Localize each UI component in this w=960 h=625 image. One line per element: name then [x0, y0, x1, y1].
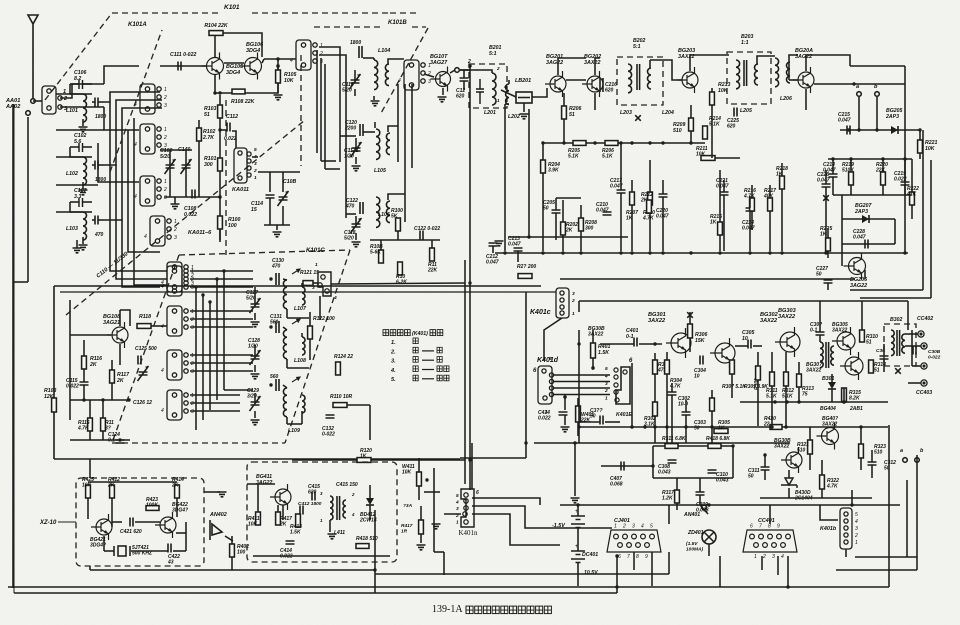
svg-text:L106: L106 — [378, 212, 390, 218]
svg-text:KA011: KA011 — [232, 187, 249, 193]
transistor BG309 — [832, 327, 855, 355]
trimmer C1171 — [351, 142, 362, 157]
junction — [731, 444, 734, 447]
svg-text:C125 500: C125 500 — [135, 346, 157, 352]
wire — [577, 398, 579, 406]
wire — [374, 122, 376, 128]
wire BG10T collector — [450, 70, 455, 73]
transistor BG303 — [775, 327, 800, 357]
wire C106 right — [83, 83, 93, 85]
capacitor C216 — [600, 78, 603, 92]
ground C127 — [251, 322, 260, 327]
junction — [591, 366, 594, 369]
svg-text:C1150-022: C1150-022 — [66, 378, 79, 390]
junction — [269, 277, 272, 280]
resistor R221 — [918, 140, 923, 153]
wire bundle 4 — [128, 130, 160, 252]
resistor R100 — [218, 216, 223, 229]
resistor R102 — [197, 128, 202, 141]
wire — [282, 505, 284, 520]
wire — [355, 233, 357, 240]
wire L202 down — [504, 104, 506, 251]
junction — [563, 395, 566, 398]
resistor R207 — [630, 192, 635, 205]
wire — [723, 180, 725, 192]
svg-text:5: 5 — [254, 147, 257, 153]
svg-text:C2280.047: C2280.047 — [853, 229, 866, 241]
junction — [503, 251, 506, 254]
wire — [329, 520, 331, 532]
wire C140 down — [185, 168, 187, 197]
wire XZ out — [204, 491, 220, 493]
wire L105 out — [388, 126, 398, 132]
svg-text:C415 150: C415 150 — [336, 482, 358, 488]
wire left rail 1 — [12, 104, 14, 588]
svg-text:1: 1 — [254, 175, 257, 181]
dashed box B202 — [617, 57, 663, 105]
wire vertical x375 — [374, 510, 376, 593]
svg-text:1: 1 — [164, 127, 167, 133]
resistor R121 — [303, 281, 313, 286]
junction — [630, 251, 633, 254]
svg-text:BG2033AX22: BG2033AX22 — [678, 48, 695, 60]
svg-text:CC403: CC403 — [916, 390, 932, 396]
wire bundle c4-0 — [190, 394, 240, 396]
wire — [355, 157, 357, 164]
resistor R311t — [665, 444, 678, 449]
wire — [577, 528, 579, 551]
wire to C105 — [92, 101, 95, 103]
junction — [593, 141, 596, 144]
wire — [894, 219, 896, 244]
switch wafer K101C-3 — [167, 350, 188, 380]
wire LB201 to BG201 — [532, 88, 547, 97]
capacitor C422 — [168, 544, 171, 553]
inductor B301 primary — [820, 342, 823, 368]
wire — [850, 159, 852, 172]
svg-text:LB201: LB201 — [515, 78, 531, 84]
resistor R402 — [230, 544, 235, 557]
transistor BG20A — [793, 67, 814, 93]
wire bundle 7 — [116, 165, 167, 279]
wire BG105 emitter — [214, 75, 216, 93]
wire L106 out — [388, 194, 405, 200]
inductor B302 primary — [891, 330, 894, 356]
trimmer C10B — [278, 191, 289, 206]
junction — [780, 251, 783, 254]
wire — [562, 200, 564, 222]
wire BG202 emitter — [594, 93, 596, 110]
junction — [661, 141, 664, 144]
svg-text:6: 6 — [476, 490, 479, 496]
terminal AA02 — [26, 111, 31, 116]
wire — [555, 198, 557, 210]
switch wafer K101C-2 — [167, 306, 188, 336]
wire — [605, 421, 620, 423]
junction — [710, 425, 713, 428]
adjust X R306 — [687, 312, 693, 318]
inductor L101 — [83, 94, 87, 122]
svg-text:C2240.047: C2240.047 — [742, 220, 755, 232]
wire — [711, 390, 713, 398]
inductor L411 s — [343, 500, 346, 518]
wire — [580, 205, 582, 218]
wire bundle 6 — [110, 102, 167, 271]
capacitor C309 — [696, 492, 705, 495]
wire — [556, 197, 581, 199]
resistor R303 — [653, 360, 658, 374]
wire to C104 — [92, 164, 95, 166]
junction — [425, 478, 428, 481]
junction — [269, 383, 272, 386]
wire K401n to battery — [472, 514, 560, 545]
wire tone top — [653, 445, 733, 447]
ground C114 — [273, 232, 282, 237]
wire vertical x526 — [525, 292, 527, 458]
wire — [771, 352, 773, 372]
svg-text:BG30B3AX22: BG30B3AX22 — [774, 438, 791, 450]
wire — [685, 400, 687, 412]
wire — [649, 160, 651, 192]
adjust arrow L109 — [292, 377, 300, 382]
svg-text:C412 1800: C412 1800 — [298, 501, 322, 507]
junction — [903, 157, 906, 160]
wire BG203 collector — [690, 55, 729, 71]
wire — [102, 431, 104, 440]
wire — [562, 235, 564, 251]
wire R104 to BG106 — [223, 33, 262, 57]
resistor R418 — [356, 544, 369, 549]
wire bus 505 — [560, 504, 900, 506]
terminal b2 — [915, 458, 920, 463]
svg-text:R3158.2K: R3158.2K — [849, 390, 861, 402]
ground C414 — [561, 427, 570, 432]
svg-text:R2055.1K: R2055.1K — [568, 148, 580, 160]
wire — [771, 386, 773, 426]
wire collector link — [558, 58, 586, 75]
wire — [369, 485, 371, 498]
inductor L105 secondary — [386, 133, 390, 155]
wire bundle c1-1 — [190, 278, 253, 280]
inductor B302 secondary — [902, 334, 905, 353]
wire bundle 1 — [104, 92, 160, 102]
switch wafer K101A-1 — [140, 84, 161, 114]
wire bus 237 — [508, 236, 628, 238]
svg-text:3.: 3. — [391, 359, 396, 365]
wire — [523, 103, 525, 112]
resistor R322 — [820, 475, 825, 489]
switch wafer K101A-4 — [150, 216, 171, 246]
capacitor C205 — [552, 210, 561, 213]
capacitor C120 2200 — [360, 124, 363, 136]
capacitor C210 — [603, 212, 612, 215]
junction — [619, 251, 622, 254]
inductor L109 secondary — [302, 395, 305, 413]
junction — [770, 425, 773, 428]
wire — [112, 521, 122, 523]
wire L102 bottom — [82, 182, 84, 189]
capacitor C112 — [227, 123, 230, 132]
diode BG207 — [862, 215, 869, 223]
inductor L103 — [83, 212, 87, 240]
wire XZ-10 leader — [58, 521, 76, 523]
table row 1 word — [413, 338, 418, 344]
filter LB201 — [516, 92, 532, 103]
wire K401e pin6 down — [631, 363, 633, 427]
wire L204 to BG203 — [650, 60, 682, 80]
junction — [661, 251, 664, 254]
svg-text:BG3013AX22: BG3013AX22 — [648, 312, 666, 324]
svg-text:L103: L103 — [66, 226, 78, 232]
wire — [254, 411, 256, 418]
resistor R209 — [689, 118, 694, 131]
junction — [875, 128, 878, 131]
capacitor C311 — [761, 467, 770, 470]
wire — [185, 522, 187, 551]
svg-text:8: 8 — [768, 524, 771, 530]
wire right rail b — [930, 160, 932, 298]
dashed K101A right edge — [225, 100, 227, 255]
resistor R414 — [175, 485, 180, 498]
resistor R321 — [808, 440, 813, 454]
junction — [373, 568, 376, 571]
svg-text:3: 3 — [772, 554, 775, 560]
wire wafer feed a — [316, 50, 318, 153]
wire top bus 301 — [579, 300, 908, 302]
wire bundle c1-0 — [190, 270, 253, 272]
core B301 — [826, 342, 829, 368]
resistor R206b — [605, 141, 618, 146]
wire C106 left — [70, 83, 79, 85]
resistor R413 — [276, 512, 281, 525]
resistor R120 — [357, 458, 371, 463]
wire CZ401 up — [668, 552, 670, 574]
svg-text:C1202200: C1202200 — [344, 120, 357, 132]
wire — [689, 338, 691, 352]
table row 3 dash — [422, 359, 434, 361]
chinese text — [437, 366, 449, 372]
transistor BG206 — [844, 253, 866, 280]
capacitor C421 — [130, 518, 133, 527]
wire — [620, 143, 622, 190]
table row 2 word — [413, 347, 418, 353]
wire — [912, 365, 921, 367]
svg-text:L203: L203 — [620, 110, 632, 116]
wire — [781, 163, 783, 176]
wire — [781, 189, 783, 251]
wire — [120, 310, 130, 326]
core L411 — [337, 496, 340, 520]
wire — [369, 405, 371, 440]
capacitor C224 — [746, 208, 755, 211]
resistor R222 — [910, 192, 915, 205]
capacitor C226 — [822, 184, 831, 187]
wire switch to L102 — [56, 156, 83, 158]
wire — [904, 159, 906, 182]
wire bus 570 right — [836, 569, 917, 571]
resistor R312 — [784, 372, 789, 386]
wire right rail down — [469, 66, 471, 253]
connector K401c — [556, 288, 569, 318]
svg-text:C3100.043: C3100.043 — [716, 472, 729, 484]
wire antenna to switch — [33, 100, 42, 102]
svg-text:1: 1 — [164, 179, 167, 185]
wire — [832, 159, 834, 174]
svg-text:R2043.9K: R2043.9K — [548, 162, 560, 174]
resistor R305 — [714, 429, 728, 434]
wire — [723, 195, 725, 251]
svg-text:B430D2C1404: B430D2C1404 — [794, 490, 813, 502]
resistor R124 — [336, 362, 341, 375]
svg-text:4: 4 — [398, 78, 401, 84]
table title tail — [430, 330, 443, 336]
svg-text:3: 3 — [164, 103, 167, 109]
junction — [576, 503, 579, 506]
wire wafer feed c — [324, 64, 326, 169]
wire CZ401 top feed — [668, 505, 670, 524]
transistor BG10T — [431, 67, 451, 92]
adjust X B202 — [635, 115, 641, 121]
wire — [354, 89, 356, 96]
svg-text:6: 6 — [618, 554, 621, 560]
svg-text:1.: 1. — [391, 340, 396, 346]
wire — [231, 536, 233, 544]
wire x529 — [528, 109, 530, 237]
table row 3 word — [413, 357, 418, 363]
wire — [631, 180, 633, 192]
wire — [135, 521, 160, 523]
wire bundle c4-2 — [190, 410, 240, 412]
svg-text:L206: L206 — [780, 96, 792, 102]
wire feeder 4 — [404, 84, 406, 222]
capacitor C221 — [720, 192, 729, 195]
transistor BG421 — [91, 514, 112, 540]
junction — [527, 235, 530, 238]
wire — [911, 330, 913, 350]
wire CZ pin down3 — [651, 552, 653, 586]
wire C109 down — [169, 168, 171, 197]
junction — [127, 398, 130, 401]
wire — [542, 173, 544, 251]
junction — [563, 395, 566, 398]
switch wafer K101B-1 — [404, 60, 425, 90]
svg-text:AN401: AN401 — [683, 512, 700, 518]
dashed box B201 — [469, 64, 507, 108]
wire — [860, 458, 862, 470]
inductor L106 secondary — [386, 201, 390, 223]
resistor R218 — [780, 176, 785, 189]
svg-text:K401b: K401b — [820, 526, 837, 532]
wire L103 bottom — [82, 237, 84, 244]
svg-text:R1122K: R1122K — [427, 262, 438, 274]
svg-text:1: 1 — [191, 309, 194, 315]
wire — [631, 205, 633, 251]
svg-text:R108 22K: R108 22K — [231, 99, 256, 105]
junction — [859, 425, 862, 428]
trimmer C126 — [138, 366, 149, 381]
dashed K101 top edge a — [112, 12, 220, 14]
wire — [264, 224, 290, 226]
svg-text:4: 4 — [455, 500, 459, 506]
wire K401b up — [851, 490, 853, 505]
wire — [825, 187, 827, 251]
svg-text:BG4223DG4?: BG4223DG4? — [172, 502, 188, 514]
junction — [653, 342, 656, 345]
svg-text:DC401: DC401 — [582, 552, 598, 558]
transistor BG310 — [840, 352, 863, 380]
wire — [89, 459, 91, 478]
capacitor C414 — [559, 412, 568, 415]
wire vertical bundle 4 — [216, 279, 218, 400]
resistor R108 — [232, 89, 245, 94]
wire — [373, 96, 375, 100]
svg-text:BG404: BG404 — [820, 406, 836, 412]
svg-text:BG3023AX22: BG3023AX22 — [760, 312, 779, 324]
wire CZ pin down — [616, 556, 618, 593]
svg-text:5: 5 — [855, 512, 858, 518]
dashed box XZ-10 crystal oscillator — [76, 478, 204, 566]
wire — [508, 80, 510, 84]
wire feeder 1 — [339, 64, 341, 162]
wire — [871, 450, 873, 462]
svg-text:C2100.047: C2100.047 — [596, 202, 609, 214]
svg-text:9: 9 — [645, 554, 648, 560]
wire — [176, 498, 178, 517]
resistor R205 — [573, 141, 586, 146]
resistor R215 — [718, 222, 723, 235]
table row 4 word — [413, 366, 418, 372]
wire bundle 8 — [122, 220, 160, 287]
svg-text:R1154.7K: R1154.7K — [77, 420, 90, 432]
resistor R306 — [688, 324, 693, 338]
junction — [651, 464, 654, 467]
wire ant sw to bundle — [60, 84, 104, 98]
wire — [577, 505, 579, 516]
capacitor C140 1800 — [359, 46, 362, 58]
wire C107 loop — [70, 202, 83, 212]
wire — [355, 138, 357, 148]
trimmer C118 — [351, 218, 362, 233]
svg-text:560: 560 — [270, 374, 279, 380]
wire — [309, 312, 311, 326]
wire bus 279 — [560, 278, 855, 280]
wire — [505, 103, 509, 105]
svg-text:BG20A3AG22: BG20A3AG22 — [795, 48, 813, 60]
junction — [577, 425, 580, 428]
wire — [269, 198, 271, 225]
svg-text:BG1083AG21: BG1083AG21 — [103, 314, 120, 326]
svg-text:5: 5 — [650, 524, 653, 530]
wire left rail 2 — [13, 104, 15, 593]
capacitor C305 — [748, 340, 751, 349]
wire — [639, 343, 662, 345]
wire — [592, 330, 594, 343]
svg-text:a: a — [900, 448, 903, 454]
svg-text:5: 5 — [456, 493, 459, 499]
svg-text:C10B: C10B — [283, 179, 297, 185]
transistor BG106 — [240, 53, 262, 80]
junction — [852, 82, 855, 85]
wire to B201 — [460, 69, 470, 71]
inductor L107 secondary — [302, 287, 305, 305]
core B203 — [744, 60, 747, 86]
svg-text:R423100K: R423100K — [146, 497, 158, 509]
capacitor C30c — [880, 356, 889, 359]
wire — [418, 458, 420, 472]
wire CZ pin down2 — [633, 552, 635, 570]
capacitor C302 — [668, 392, 677, 395]
resistor R204 — [541, 160, 546, 173]
